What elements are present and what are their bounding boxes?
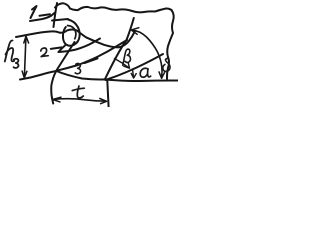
- chip inner horizontal stroke: [52, 19, 68, 21]
- label t: [77, 86, 83, 98]
- right broken edge descending from top line: [167, 10, 174, 79]
- h3 bottom arrowhead: [22, 71, 27, 78]
- label alpha: [140, 68, 151, 77]
- chip curl: [63, 20, 80, 46]
- label beta: [123, 49, 131, 65]
- label delta: [163, 58, 170, 71]
- delta arc lower arrowhead: [159, 72, 165, 78]
- label h3: [5, 40, 19, 68]
- machined bottom surface line: [20, 71, 178, 81]
- original surface wavy line at left: [16, 30, 135, 48]
- chip inner spiral turn: [68, 26, 76, 39]
- label 2: [41, 48, 48, 57]
- t right extension line: [107, 81, 108, 108]
- t right arrowhead: [100, 99, 107, 104]
- beta angle arc with arrowhead: [115, 59, 129, 68]
- delta angle arc: [132, 30, 162, 76]
- label 1 digit: [31, 6, 37, 18]
- label 3: [75, 63, 80, 73]
- workpiece top wavy surface line: [70, 7, 172, 12]
- label 1 leader dash: [40, 14, 51, 16]
- h3 top arrowhead: [24, 36, 29, 43]
- label 3 leader dash: [85, 58, 98, 63]
- label 2 leader dash: [51, 47, 62, 49]
- chip top hook into surface: [55, 3, 70, 8]
- surface line left of chip: [30, 13, 55, 22]
- t dimension line: [53, 99, 106, 102]
- t left extension curve: [51, 72, 56, 104]
- back face line (beta line): [56, 40, 127, 71]
- chip back vertical stroke: [54, 3, 58, 27]
- rake face line of tooth: [56, 42, 75, 72]
- steep front face line with far end: [105, 18, 134, 80]
- stroke under chip: [59, 46, 66, 53]
- stroke under chip continuing right: [59, 39, 101, 53]
- delta arc upper arrowhead: [131, 28, 139, 35]
- t left arrowhead: [53, 97, 61, 102]
- h3 dimension vertical line: [24, 38, 26, 78]
- alpha angle mini arrow: [132, 70, 135, 77]
- alpha side line from vertex: [106, 54, 164, 80]
